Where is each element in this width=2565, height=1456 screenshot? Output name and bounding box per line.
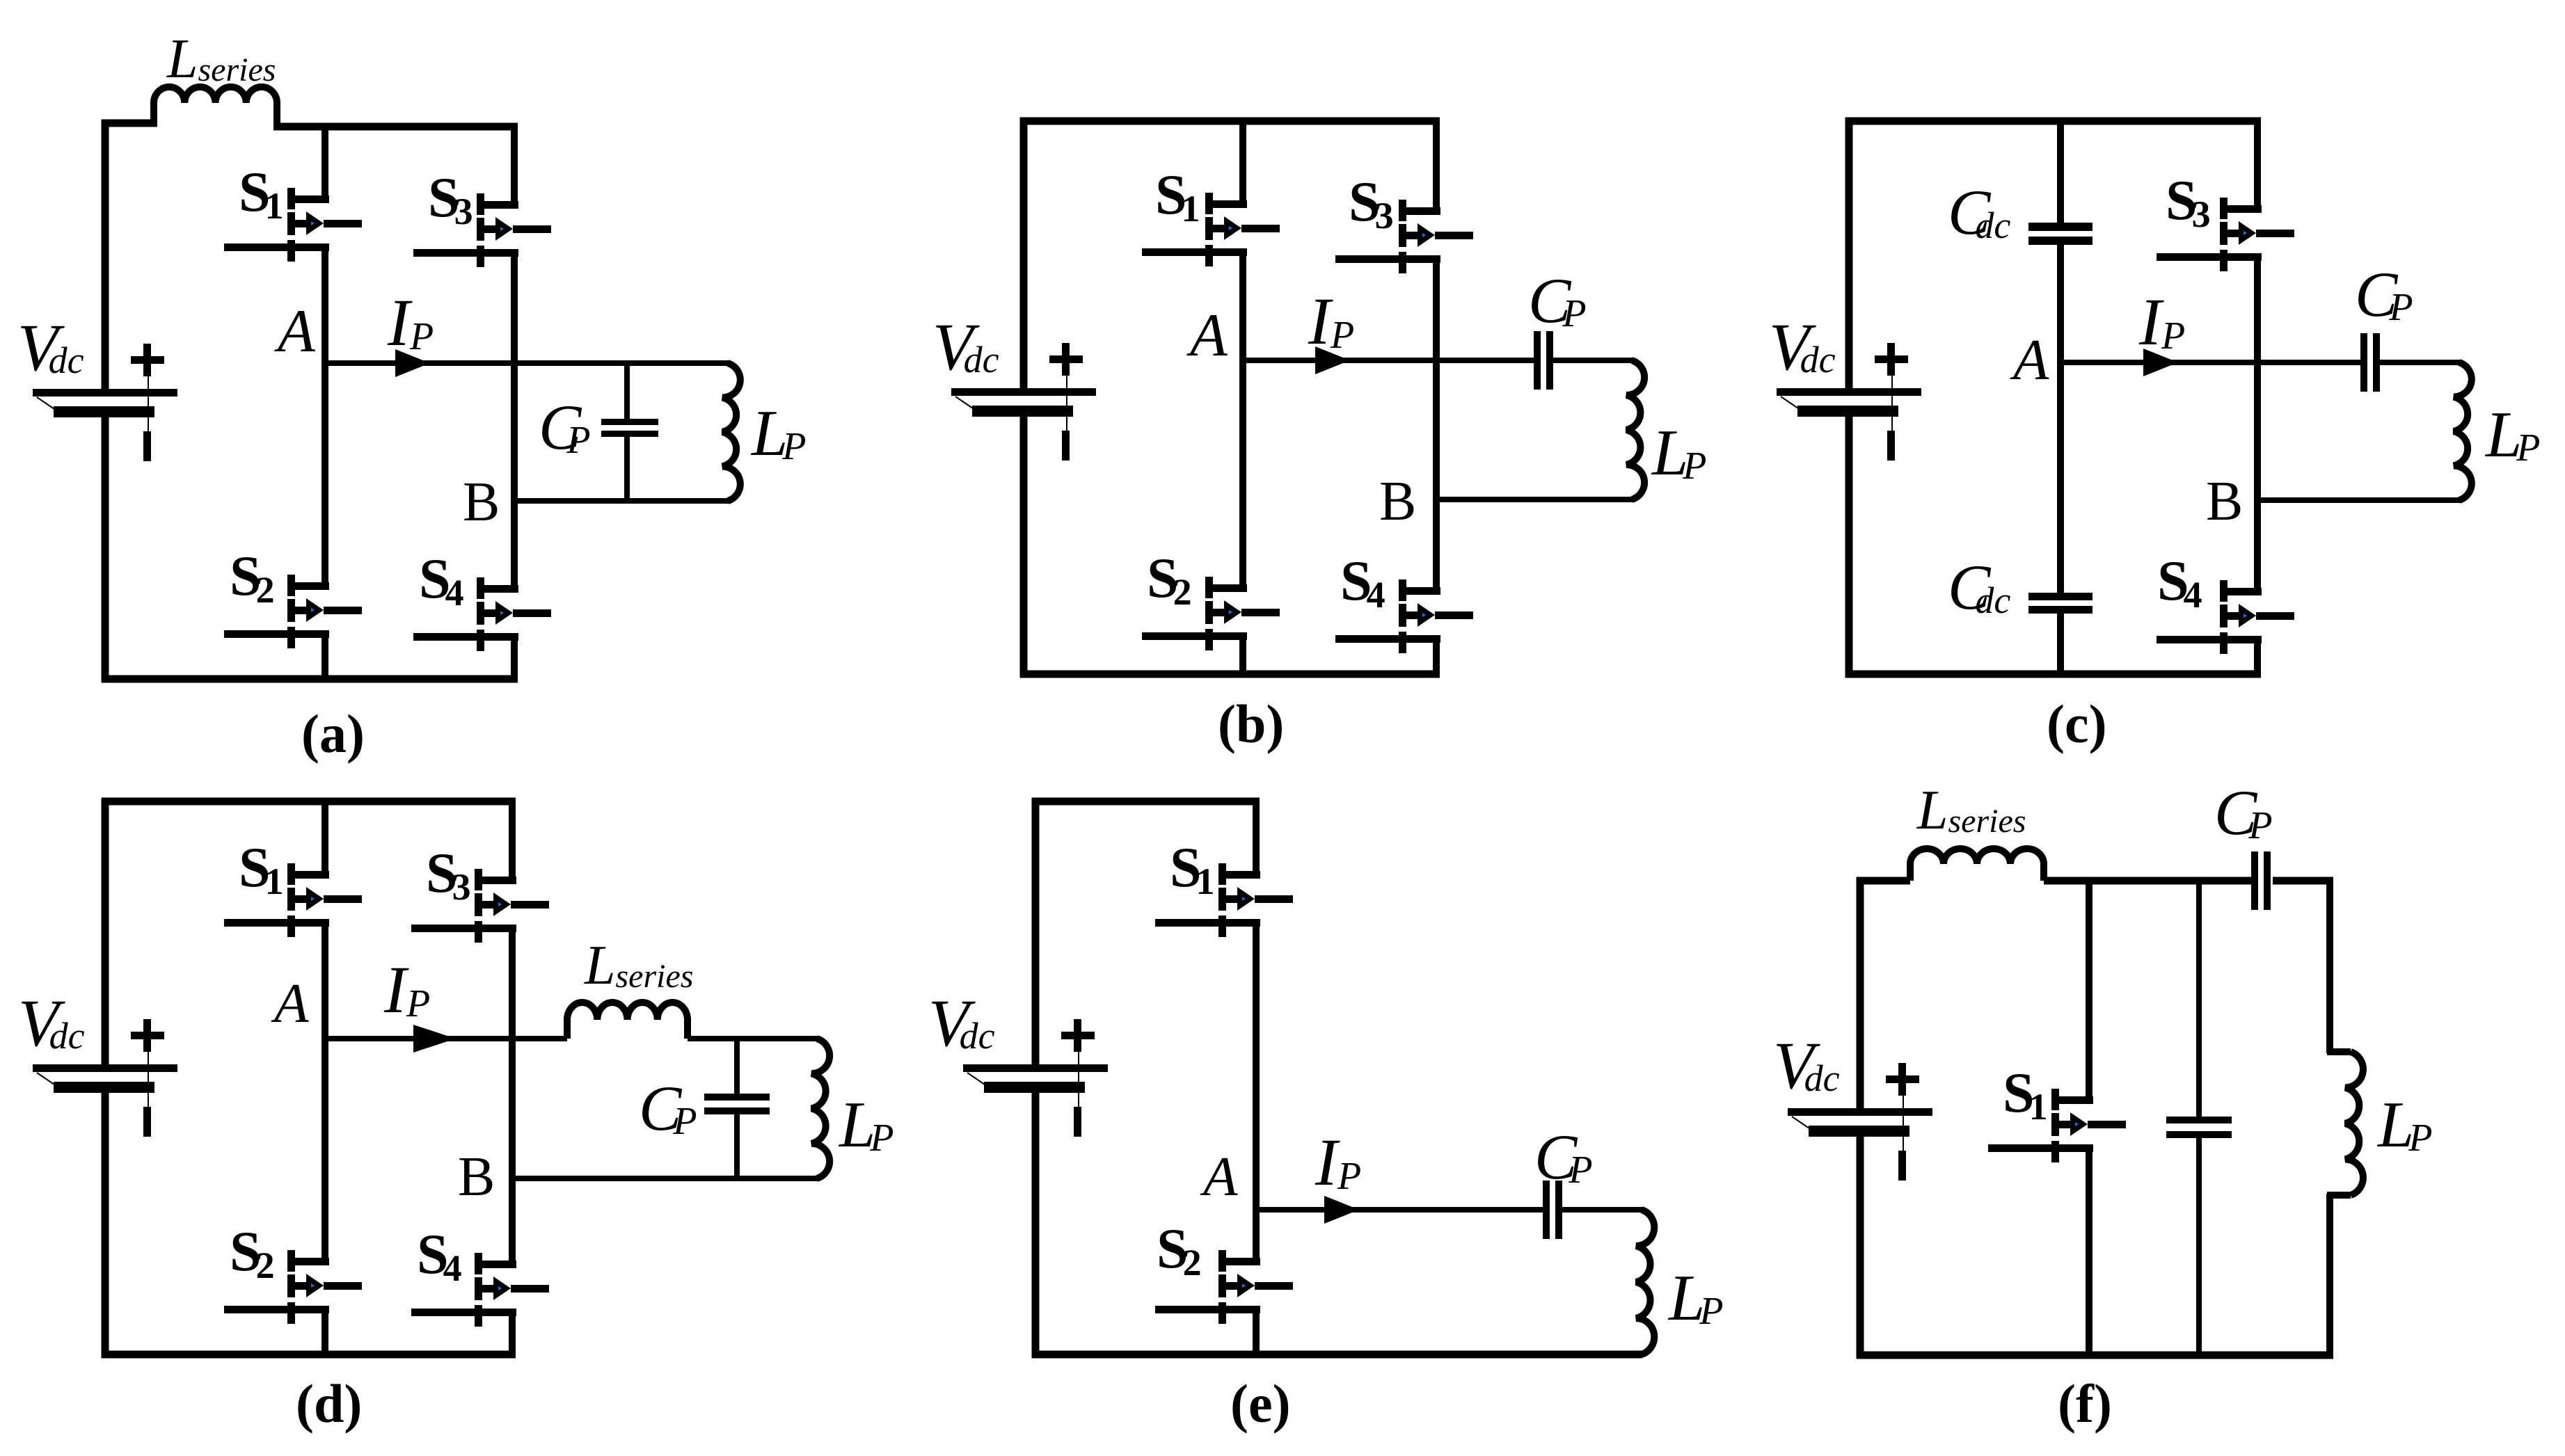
current arrow Ip (c) — [2143, 349, 2178, 376]
current arrow Ip (e) — [1324, 1196, 1359, 1224]
wire right leg upper (c) — [2254, 121, 2261, 213]
wire left rail upper (b) — [1020, 118, 1028, 388]
transistor S3 (a) — [413, 193, 551, 267]
inductor LP (b) — [1626, 360, 1644, 499]
svg-text:(e): (e) — [1230, 1373, 1291, 1434]
capacitor Cdc upper (c) — [2028, 223, 2092, 245]
wire right bridge leg upper (b) — [1433, 121, 1440, 215]
wire shunt capacitor leg lower (f) — [2196, 1138, 2202, 1355]
transistor S3 (b) — [1335, 200, 1473, 273]
transistor S2 (d) — [224, 1250, 362, 1324]
inductor LP (a) — [722, 363, 740, 501]
transistor S2 (a) — [224, 575, 362, 648]
battery Vdc (f) — [1788, 1063, 1932, 1181]
svg-text:B: B — [2206, 471, 2243, 532]
capacitor CP (d) — [704, 1039, 770, 1181]
wire left rail upper (d) — [102, 798, 109, 1064]
svg-text:B: B — [458, 1146, 495, 1208]
wire right bridge leg lower (a) — [511, 633, 518, 679]
wire right bridge leg lower (b) — [1433, 635, 1440, 674]
wire Ip output (c) — [2060, 360, 2360, 365]
battery Vdc (c) — [1777, 343, 1921, 461]
wire left rail upper (c) — [1845, 118, 1853, 388]
wire CP to LP (c) — [2373, 360, 2460, 365]
svg-text:(f): (f) — [2058, 1373, 2112, 1434]
wire left bridge leg middle (d) — [321, 919, 328, 1265]
wire right bridge leg middle (b) — [1433, 255, 1440, 594]
wire left rail (a) — [102, 120, 109, 389]
wire right leg lower (f) — [2326, 1194, 2333, 1355]
circuit (d) full-bridge inverter with series inductor and parallel tank — [18, 798, 894, 1434]
transistor S4 (a) — [413, 577, 551, 651]
wire right bridge leg upper (a) — [511, 127, 518, 209]
wire CP to LP (b) — [1546, 358, 1633, 363]
wire right bridge leg upper (d) — [509, 801, 516, 884]
circuit (e) half-bridge inverter with series-resonant tank — [928, 798, 1724, 1434]
wire left rail upper (e) — [1032, 798, 1040, 1064]
shunt capacitor (f) — [2166, 1117, 2232, 1138]
circuit (a) full-bridge inverter with parallel-resonant tank — [17, 29, 807, 764]
wire top rail (c) — [1845, 118, 2261, 125]
wire node B to LP bottom (b) — [1436, 497, 1633, 502]
inductor LP (d) — [811, 1039, 829, 1178]
wire top rail left segment (f) — [1857, 877, 1910, 885]
inductor Lseries (f) — [1910, 849, 2044, 881]
wire node B to LP bottom (c) — [2257, 497, 2460, 503]
current arrow Ip (a) — [395, 349, 430, 377]
circuit (b) full-bridge inverter with series-resonant tank — [932, 118, 1707, 754]
wire top rail (b) — [1020, 118, 1440, 125]
wire switch leg upper (f) — [2086, 881, 2092, 1104]
current arrow Ip (b) — [1315, 346, 1350, 374]
wire left bridge leg lower (b) — [1239, 632, 1246, 674]
svg-text:(d): (d) — [296, 1373, 362, 1434]
inductor LP (f) — [2327, 1052, 2363, 1195]
wire switch leg lower (e) — [1253, 1306, 1260, 1354]
wire left rail lower (c) — [1845, 417, 1853, 678]
wire left bridge leg upper (b) — [1239, 121, 1246, 208]
wire right bridge leg middle (a) — [511, 249, 518, 592]
transistor S4 (d) — [411, 1253, 549, 1327]
inductor LP (e) — [1636, 1210, 1654, 1354]
wire left rail lower (d) — [102, 1093, 109, 1358]
wire left bridge leg upper (d) — [321, 801, 328, 879]
wire Ip output (a) node A to tank — [325, 360, 729, 366]
transistor S3 (c) — [2157, 198, 2294, 271]
wire left rail lower (a) — [102, 417, 109, 682]
battery Vdc (a) — [33, 344, 177, 461]
transistor S2 (e) — [1155, 1250, 1293, 1324]
battery Vdc (e) — [963, 1019, 1108, 1137]
wire node B to LP bottom (d) — [512, 1176, 818, 1181]
wire left rail lower (b) — [1020, 417, 1028, 678]
wire top rail right segment (a) — [273, 123, 518, 131]
transistor S1 (a) — [224, 188, 362, 262]
svg-text:A: A — [271, 972, 309, 1034]
circuit (f) single-switch class-E style inverter — [1773, 777, 2433, 1434]
current arrow Ip (d) — [413, 1025, 456, 1053]
svg-text:(b): (b) — [1218, 694, 1284, 754]
wire capacitor leg lower (c) — [2057, 614, 2064, 674]
wire bottom rail (d) — [102, 1351, 516, 1359]
wire switch leg lower (f) — [2086, 1144, 2092, 1355]
svg-text:(a): (a) — [301, 703, 365, 764]
wire left rail upper (f) — [1857, 877, 1864, 1108]
wire bottom rail (f) — [1857, 1352, 2333, 1359]
wire right leg upper (f) — [2326, 881, 2333, 1053]
wire top rail (e) — [1032, 798, 1260, 806]
transistor S1 (e) — [1155, 863, 1293, 937]
transistor S4 (b) — [1335, 579, 1473, 653]
wire right bridge leg lower (d) — [509, 1309, 516, 1354]
wire left bridge leg lower (a) — [321, 630, 328, 679]
transistor S1 (b) — [1142, 193, 1280, 266]
inductor Lseries (a) — [154, 87, 277, 129]
transistor S3 (d) — [411, 869, 549, 943]
wire Ip output (e) — [1256, 1207, 1543, 1213]
svg-text:B: B — [463, 472, 500, 533]
transistor S1 (f) — [1988, 1089, 2126, 1162]
wire left rail lower (f) — [1857, 1137, 1864, 1359]
svg-text:A: A — [2010, 328, 2049, 392]
svg-text:A: A — [1186, 302, 1228, 369]
wire CP to LP (e) — [1555, 1207, 1642, 1213]
wire Ip output (d) — [325, 1036, 567, 1041]
wire top rail (d) — [102, 798, 516, 806]
svg-text:A: A — [274, 298, 316, 365]
transistor S1 (d) — [224, 863, 362, 937]
svg-text:(c): (c) — [2047, 694, 2107, 754]
capacitor CP (a) — [601, 363, 658, 504]
transistor S4 (c) — [2157, 580, 2294, 654]
wire capacitor leg middle (c) — [2057, 245, 2064, 594]
wire Ip output (b) — [1243, 358, 1534, 363]
capacitor Cdc lower (c) — [2028, 593, 2092, 614]
wire left bridge leg middle (a) node A to S2 — [321, 243, 328, 589]
svg-text:B: B — [1379, 471, 1416, 532]
capacitor CP (f) — [2251, 851, 2271, 910]
wire left bridge leg upper (a) — [321, 127, 328, 203]
battery Vdc (b) — [951, 343, 1096, 461]
battery Vdc (d) — [33, 1019, 177, 1137]
wire node B to tank bottom (a) — [514, 498, 729, 504]
capacitor CP (c) — [2360, 333, 2380, 392]
wire CP to right leg (f) — [2273, 877, 2333, 885]
wire switch leg middle (e) — [1253, 919, 1260, 1265]
wire right leg lower (c) — [2254, 636, 2261, 674]
inductor LP (c) — [2454, 362, 2472, 500]
wire top rail left segment (a) — [102, 120, 157, 127]
wire capacitor leg upper (c) — [2057, 121, 2064, 224]
wire bottom rail (a) — [102, 675, 518, 683]
wire switch leg upper (e) — [1253, 801, 1260, 879]
capacitor CP (b) — [1534, 331, 1553, 390]
transistor S2 (b) — [1142, 577, 1280, 650]
wire bottom rail (c) — [1845, 671, 2261, 678]
wire top rail middle segment (f) — [2044, 877, 2251, 885]
svg-text:A: A — [1200, 1145, 1238, 1208]
wire left rail lower (e) — [1032, 1093, 1040, 1358]
wire shunt capacitor leg upper (f) — [2196, 881, 2202, 1118]
wire bottom rail (e) — [1032, 1351, 1642, 1359]
wire Lseries to tank (d) — [688, 1036, 818, 1041]
capacitor CP (e) — [1543, 1181, 1562, 1239]
inductor Lseries (d) — [567, 1002, 688, 1039]
circuit (c) half-bridge inverter with split dc-link capacitors — [1769, 118, 2541, 754]
wire right leg middle (c) — [2254, 253, 2261, 595]
wire bottom rail (b) — [1020, 671, 1440, 678]
wire left bridge leg lower (d) — [321, 1306, 328, 1354]
wire left bridge leg middle (b) — [1239, 248, 1246, 591]
wire right bridge leg middle (d) — [509, 925, 516, 1267]
